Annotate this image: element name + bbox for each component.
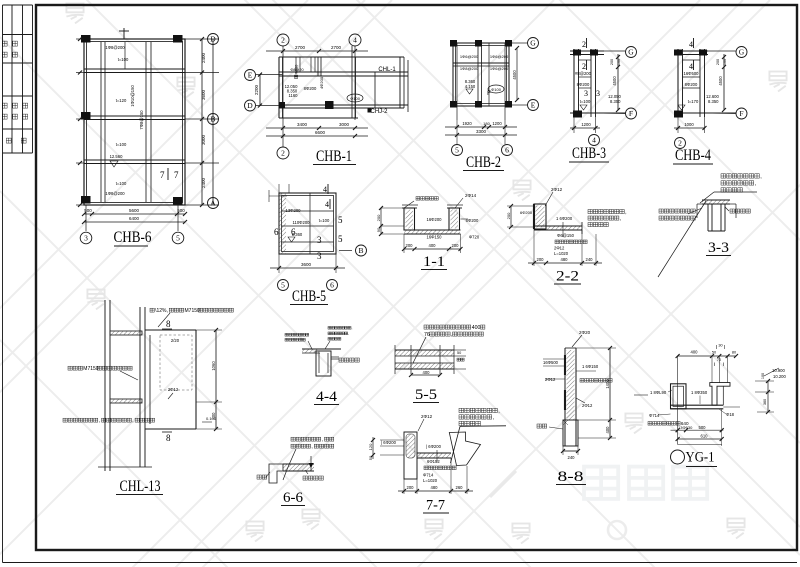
svg-text:3000: 3000 [201,134,206,145]
svg-text:13Φ530: 13Φ530 [678,425,693,430]
svg-text:1 6Φ150: 1 6Φ150 [582,364,599,369]
svg-text:1000: 1000 [684,122,694,127]
svg-text:3: 3 [84,234,88,243]
svg-text:,: , [625,210,626,216]
svg-text:8.350: 8.350 [708,99,719,104]
svg-text:7-7: 7-7 [426,498,445,514]
svg-text:B: B [358,246,363,255]
svg-text:400: 400 [429,243,437,248]
svg-text:2-2: 2-2 [556,269,579,285]
svg-text:480: 480 [561,257,569,262]
svg-text:#8@200: #8@200 [575,71,592,76]
svg-text:G: G [739,48,745,57]
svg-text:Φ100: Φ100 [491,87,502,92]
svg-text:200: 200 [610,59,614,65]
svg-text:80: 80 [732,351,736,355]
svg-text:E: E [531,101,536,110]
svg-text:30: 30 [718,344,722,348]
svg-text:100: 100 [723,59,727,65]
svg-text:4-4: 4-4 [316,389,338,405]
svg-text:240: 240 [586,257,594,262]
svg-text:260: 260 [456,485,464,490]
svg-text:Φ18: Φ18 [726,412,735,417]
svg-text:500: 500 [699,425,707,430]
svg-text:1Φ8@200: 1Φ8@200 [105,191,125,196]
svg-text:6: 6 [505,146,509,155]
svg-text:5: 5 [176,234,180,243]
svg-text:CHL-13: CHL-13 [120,478,161,495]
svg-text:1160: 1160 [288,93,298,98]
svg-text:Φ6@150: Φ6@150 [557,233,575,238]
svg-text:16Φ500: 16Φ500 [684,71,700,76]
svg-text:B: B [210,115,215,124]
svg-text:D: D [247,101,253,110]
svg-text:1400: 1400 [605,379,610,389]
svg-text:,: , [311,444,312,450]
svg-text:| 6Φ200: | 6Φ200 [381,440,397,445]
svg-text:1Φ8@200: 1Φ8@200 [105,45,125,50]
svg-text:610: 610 [701,434,709,439]
svg-text:2Φ12: 2Φ12 [582,403,593,408]
svg-text:8.350: 8.350 [610,99,621,104]
svg-text:2Φ14: 2Φ14 [465,193,477,198]
svg-text:M7150: M7150 [83,366,99,372]
svg-text:50: 50 [368,455,373,460]
svg-text:120: 120 [368,443,373,450]
svg-text:4: 4 [592,136,596,145]
svg-text:6: 6 [274,227,279,237]
svg-text:4500: 4500 [718,76,723,86]
svg-text:8: 8 [166,433,171,443]
svg-text:CHB-3: CHB-3 [572,145,606,162]
svg-text:1Φ8@200: 1Φ8@200 [460,66,479,71]
svg-text:8: 8 [166,319,171,329]
svg-text:F: F [739,109,743,118]
svg-text:2200: 2200 [254,84,259,95]
svg-text:5: 5 [281,281,285,290]
svg-text:CHB-5: CHB-5 [292,288,326,305]
svg-text:4: 4 [689,40,693,49]
svg-text:t=170: t=170 [688,99,699,104]
svg-text:YG-1: YG-1 [686,450,715,466]
svg-text:4.150: 4.150 [465,84,476,89]
svg-text:L=1020: L=1020 [423,478,438,483]
svg-text:2Φ12: 2Φ12 [168,387,179,392]
svg-text:12.560: 12.560 [110,154,123,159]
svg-text:1Φ10@150: 1Φ10@150 [130,85,135,107]
svg-text:400: 400 [423,370,431,375]
svg-text:4: 4 [325,200,329,209]
svg-text:400: 400 [472,325,481,331]
svg-text:200: 200 [452,243,460,248]
svg-text:50: 50 [712,351,716,355]
svg-text:2Φ20: 2Φ20 [579,330,591,335]
svg-text:,: , [322,437,323,443]
svg-text:3: 3 [584,89,588,98]
svg-text:2/20: 2/20 [171,338,180,343]
svg-text:8.360: 8.360 [292,232,303,237]
svg-text:6Φ200: 6Φ200 [520,210,533,215]
svg-text:360: 360 [763,399,767,405]
svg-text:\12%,: \12%, [155,308,168,314]
svg-text:90: 90 [376,227,381,232]
svg-text:1-1: 1-1 [423,254,445,270]
svg-text:F: F [487,91,491,97]
svg-text:F: F [629,109,633,118]
svg-text:50: 50 [457,351,461,355]
svg-text:2400: 2400 [201,177,206,188]
svg-text:5-5: 5-5 [415,387,437,403]
svg-text:E: E [248,71,253,80]
svg-text:7Φ8@150: 7Φ8@150 [139,110,144,130]
svg-text:G: G [530,39,536,48]
svg-text:2: 2 [582,40,586,49]
svg-text:2Φ12: 2Φ12 [554,246,565,251]
svg-text:1200: 1200 [581,122,591,127]
svg-text:200: 200 [716,59,720,65]
svg-text:2Φ12: 2Φ12 [551,187,563,192]
svg-text:100: 100 [617,59,621,65]
svg-text:t=100: t=100 [116,181,127,186]
svg-text:110Φ200: 110Φ200 [292,220,310,225]
svg-text:Φ100: Φ100 [350,96,361,101]
svg-text:200: 200 [506,212,511,219]
svg-text:4500: 4500 [512,70,517,80]
svg-text:t=120: t=120 [116,98,127,103]
svg-text:2: 2 [582,62,586,71]
svg-text:t=100: t=100 [116,142,127,147]
svg-text:t=100: t=100 [118,57,129,62]
svg-text:1200: 1200 [492,121,502,126]
svg-text:D: D [210,35,216,44]
svg-text:Φ200: Φ200 [294,64,299,75]
svg-text:Φ714: Φ714 [649,413,660,418]
svg-text:3600: 3600 [201,89,206,100]
svg-text:1920: 1920 [462,121,472,126]
svg-text:2Φ12: 2Φ12 [545,377,556,382]
svg-text:10.200: 10.200 [773,374,786,379]
svg-text:CHB-6: CHB-6 [114,229,152,246]
svg-text:2700: 2700 [331,45,342,50]
svg-text:500: 500 [84,208,92,213]
svg-text:6-6: 6-6 [283,490,303,506]
svg-text:2Φ12: 2Φ12 [421,414,433,419]
svg-text:240: 240 [568,455,576,460]
svg-text:3000: 3000 [339,122,350,127]
svg-text:16Φ500: 16Φ500 [543,360,559,365]
svg-text:4500: 4500 [612,76,617,86]
svg-text:200: 200 [537,257,545,262]
svg-text:2400: 2400 [201,52,206,63]
svg-text:CHB-4: CHB-4 [675,147,711,164]
svg-text:3: 3 [317,235,322,245]
svg-text:4: 4 [353,36,357,45]
svg-text:2: 2 [281,36,285,45]
svg-text:t=100: t=100 [580,99,591,104]
svg-text:1 8ΦL90: 1 8ΦL90 [650,390,667,395]
svg-text:16Φ150: 16Φ150 [427,235,443,240]
svg-text:70: 70 [717,358,721,362]
svg-text:400: 400 [691,350,699,355]
svg-text:200: 200 [407,485,415,490]
svg-text:1Φ6@200: 1Φ6@200 [490,54,509,59]
svg-text:200: 200 [376,214,381,221]
svg-text:13Φ200: 13Φ200 [286,208,302,213]
svg-text:6: 6 [330,281,334,290]
svg-text:Φ714: Φ714 [423,473,434,478]
svg-text:A: A [210,199,216,208]
svg-text:3-3: 3-3 [708,240,729,256]
svg-text:5: 5 [338,215,343,225]
svg-text:3400: 3400 [297,122,308,127]
svg-text:L=1020: L=1020 [554,251,569,256]
svg-text:4Φ200: 4Φ200 [319,76,324,89]
svg-text:3600: 3600 [301,262,312,267]
svg-text:7: 7 [160,170,165,180]
svg-text:16Φ200: 16Φ200 [427,217,443,222]
svg-text:| 6Φ200: | 6Φ200 [426,444,442,449]
svg-text:0.100: 0.100 [206,416,217,421]
svg-text:CHL-1: CHL-1 [378,67,396,73]
svg-text:180: 180 [483,121,490,126]
svg-text:6400: 6400 [129,216,140,221]
svg-text:4: 4 [689,62,693,71]
svg-text:8Φ200: 8Φ200 [685,82,698,87]
svg-text:8-8: 8-8 [558,469,584,485]
svg-text:1060: 1060 [211,361,216,371]
svg-text:400: 400 [605,426,610,434]
svg-text:3300: 3300 [476,129,487,134]
svg-text:G: G [628,48,634,57]
svg-text:1Φ6@200: 1Φ6@200 [460,54,479,59]
svg-text:76: 76 [424,332,430,338]
svg-text:480: 480 [431,485,439,490]
svg-text:,: , [99,418,100,424]
svg-text:2: 2 [281,149,285,158]
svg-text:Φ720: Φ720 [469,235,480,240]
svg-text:,: , [451,332,452,338]
svg-text:7: 7 [174,170,179,180]
svg-text:,: , [348,332,349,336]
svg-text:CHB-1: CHB-1 [316,148,352,165]
svg-text:1 8Φ350: 1 8Φ350 [691,390,708,395]
svg-text:,: , [352,326,353,330]
svg-text:t=100: t=100 [319,218,330,223]
svg-text:1 6Φ200: 1 6Φ200 [556,216,573,221]
svg-text:5: 5 [338,234,343,244]
svg-text:CHJ-2: CHJ-2 [370,109,388,115]
svg-text:200: 200 [406,243,414,248]
svg-text:M7150: M7150 [185,308,201,314]
svg-text:1Φ6@200: 1Φ6@200 [490,66,509,71]
svg-text:CHB-2: CHB-2 [466,154,501,171]
svg-text:4: 4 [323,185,327,194]
svg-text:,: , [620,216,621,222]
svg-text:5600: 5600 [129,208,140,213]
svg-text:500: 500 [177,208,185,213]
svg-text:,: , [132,418,133,424]
svg-text:2700: 2700 [295,45,306,50]
svg-text:5: 5 [455,146,459,155]
svg-text:6600: 6600 [315,130,326,135]
svg-text:3: 3 [317,251,322,261]
svg-text:8Φ200: 8Φ200 [304,86,317,91]
svg-text:6Φ152: 6Φ152 [427,459,440,464]
svg-text:8Φ200: 8Φ200 [577,82,590,87]
svg-text:3: 3 [596,89,600,98]
